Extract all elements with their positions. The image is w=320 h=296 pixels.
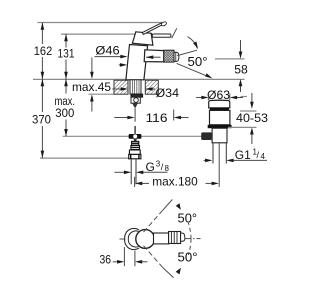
drain dark band [210, 108, 229, 111]
reference line lever closed height [61, 33, 153, 35]
horizontal centerline right [185, 238, 201, 240]
svg-text:36: 36 [100, 253, 112, 267]
aerator rings [169, 232, 181, 244]
supply pipe G3/8 [130, 159, 132, 185]
centerline tick left of body [120, 238, 128, 240]
swivel dashed line lower [144, 246, 163, 268]
reference line top (lever open height) [38, 22, 167, 24]
aerator tip [174, 52, 179, 61]
faucet centerline below [134, 107, 136, 122]
dimension 36 [123, 247, 125, 266]
lever end knob [161, 21, 167, 26]
dimension 58 [240, 40, 242, 52]
extra small arrow at body lower left [119, 64, 122, 66]
pop-up rod line [63, 135, 129, 137]
svg-text:131: 131 [58, 47, 75, 61]
Ø34 leader arrows at deck hole [112, 88, 121, 90]
svg-text:4: 4 [261, 152, 266, 161]
dimension 131 [65, 34, 67, 79]
mounting deck slab with hatching [114, 80, 158, 94]
lower diverging line with arrow [177, 63, 211, 77]
drain stem [212, 128, 227, 143]
svg-text:50°: 50° [178, 250, 198, 265]
svg-text:300: 300 [55, 106, 74, 120]
drain body [210, 110, 230, 124]
lever rod (closed position) [152, 34, 171, 37]
pop-up rod coupling (black with hole) [129, 134, 142, 139]
hose adapter / threaded nipple below coupling [129, 139, 141, 159]
dimension max.300 [65, 79, 67, 136]
body rear outline (rounded cap) [125, 228, 139, 249]
pop-up drain head [209, 100, 230, 108]
G3/8 leader arrows [115, 171, 125, 173]
dimension 162 [41, 23, 43, 80]
svg-text:370: 370 [32, 113, 51, 127]
right side arrow of Ø46 (over spout) [146, 56, 161, 58]
dimension 370 [41, 79, 43, 158]
spout bar [154, 233, 169, 244]
spout [144, 50, 164, 62]
drain tail pipe G1 1/4 [212, 143, 214, 164]
svg-text:50°: 50° [188, 54, 208, 69]
svg-text:50°: 50° [178, 211, 198, 226]
svg-text:G: G [146, 160, 155, 174]
svg-text:162: 162 [34, 44, 53, 58]
svg-text:max.180: max.180 [152, 175, 198, 189]
cone below fitting [132, 103, 138, 107]
dimension max.180 [134, 177, 136, 187]
angle arc upper with arrow [188, 223, 191, 239]
aerator tip [181, 233, 185, 241]
cap circle [136, 230, 155, 249]
lever stick (open position) [142, 23, 162, 34]
svg-text:Ø46: Ø46 [95, 44, 120, 58]
faucet body [126, 45, 148, 80]
50 degree aerator swivel marking (upper drawing) [177, 50, 197, 55]
svg-text:Ø34: Ø34 [156, 86, 180, 100]
svg-text:max.45: max.45 [72, 80, 111, 94]
pop-up rod knob [201, 132, 212, 140]
aerator collar (knurled) [164, 50, 174, 62]
swivel dashed line upper [144, 210, 163, 232]
shank nut [131, 94, 143, 97]
dimension 40-53 [251, 93, 253, 102]
small tick [241, 96, 248, 98]
threaded shank through deck [130, 80, 141, 94]
spout height reference line [215, 58, 245, 60]
cartridge cap [132, 32, 153, 45]
drain centerline extension [218, 143, 220, 187]
svg-text:58: 58 [234, 63, 248, 77]
svg-text:116: 116 [146, 111, 168, 125]
dimension 116 [114, 117, 128, 119]
svg-text:8: 8 [165, 164, 170, 173]
drain flange (black) [208, 125, 232, 128]
svg-text:Ø63: Ø63 [207, 88, 230, 102]
dimension max.45 (deck thickness) [91, 58, 93, 73]
mounting deck reference line [33, 78, 245, 80]
angle arc lower with arrow [188, 239, 191, 255]
hose end reference line (370 bottom) [40, 157, 131, 159]
fitting with ball [131, 97, 140, 103]
svg-text:40-53: 40-53 [236, 111, 268, 125]
